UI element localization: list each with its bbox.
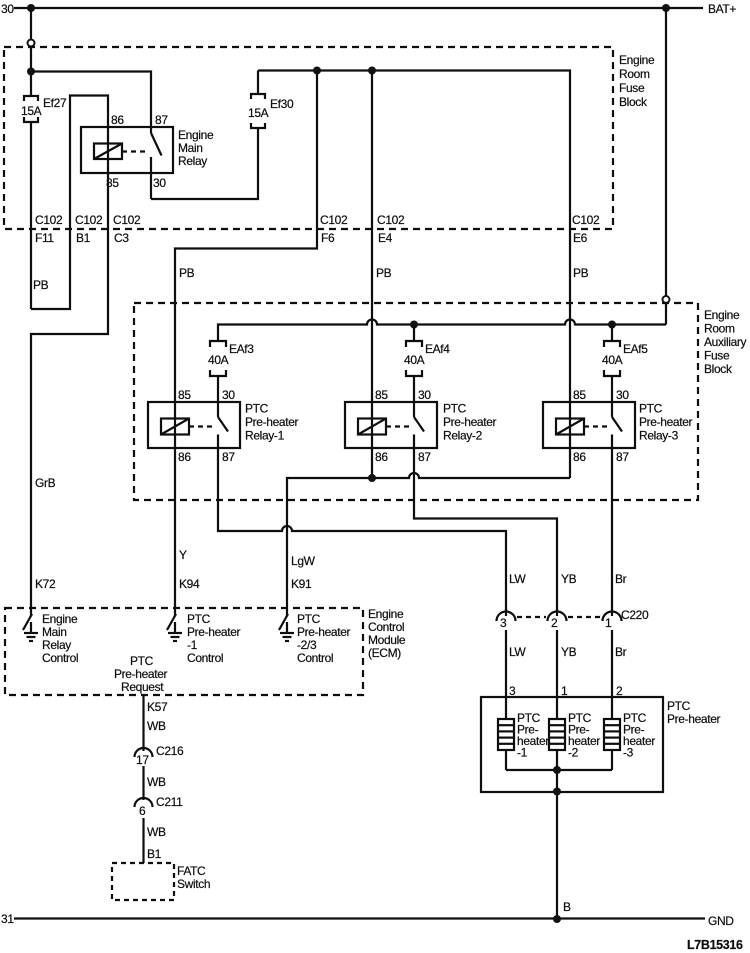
svg-text:87: 87 [616,450,629,464]
svg-text:Block: Block [704,362,733,376]
svg-text:B1: B1 [147,847,162,861]
relay-2 name [443,402,497,443]
wire engine main relay coil through 85 to GrB [31,127,108,608]
wire B to ground bus 31 [556,770,558,919]
wire relay 30 to Ef30 [151,128,258,199]
svg-text:Engine: Engine [704,308,740,322]
K91 function text [297,612,351,665]
svg-text:C102: C102 [377,213,405,227]
svg-text:C220: C220 [621,608,649,622]
fuse EAf5 [604,325,620,403]
wire bus to fuse block connector [30,8,32,40]
svg-text:Pre-heater: Pre-heater [187,625,241,639]
relay-2 coil [358,419,386,435]
PTC pre-heater request text [114,654,168,694]
svg-text:30: 30 [418,388,431,402]
connector C220 pin 1 [603,609,622,630]
heater element PTC pre-heater -1 [498,719,514,750]
svg-text:Ef30: Ef30 [270,97,294,111]
svg-text:-2: -2 [568,746,579,760]
svg-text:30: 30 [153,176,166,190]
svg-text:-2/3: -2/3 [297,638,317,652]
svg-text:Control: Control [187,651,223,665]
svg-text:WB: WB [147,775,166,789]
svg-text:85: 85 [573,388,586,402]
wire F11 to B1 loop through C102 [31,96,108,310]
connector C102 pin E6 labels [572,213,600,245]
svg-text:85: 85 [375,388,388,402]
K72 function text [42,612,78,665]
svg-text:FATC: FATC [177,864,206,878]
connector C211 pin 6 [135,798,153,818]
svg-text:Engine: Engine [619,53,655,67]
op relay U engine main relay box [81,127,173,173]
svg-text:-1: -1 [517,746,528,760]
svg-text:PTC: PTC [130,654,154,668]
wire relay-2 86 / relay-3 86 common to ECM K91 (LgW) [287,402,570,608]
junction on bus at BAT+ drop [662,4,670,12]
relay-1 name [245,402,299,443]
svg-text:E4: E4 [378,231,393,245]
junction B on ground bus [553,915,561,923]
ground K72 engine main relay control [23,608,38,641]
svg-text:C211: C211 [156,795,183,809]
relay-1 coil-switch link [189,425,213,427]
wire Ef30 output rail [258,71,570,403]
relay-3 switch blade [612,402,622,448]
svg-text:Pre-heater: Pre-heater [667,712,721,726]
svg-text:Relay-1: Relay-1 [245,429,285,443]
FATC switch name [177,864,210,891]
svg-text:Br: Br [615,645,627,659]
svg-text:C102: C102 [320,213,348,227]
wire relay-2 87 to C220 pin2 (YB) [414,448,557,611]
wire C220 pin3 to heater-1 (LW) [505,630,507,719]
svg-text:Relay: Relay [42,638,71,652]
engine main relay name [178,128,214,168]
relay K PTC pre-heater relay-1 box [148,402,240,448]
engine room auxiliary fuse block name [704,308,747,376]
wire relay-1 86 to ECM K94 (Y) [174,402,176,608]
connector circle into Engine Room Fuse Block [28,40,35,47]
wire C220 pin1 to heater-3 (Br) [611,630,613,719]
junction heater common [553,766,561,774]
svg-text:87: 87 [418,450,431,464]
svg-text:(ECM): (ECM) [368,646,401,660]
svg-text:15A: 15A [21,104,42,118]
svg-text:30: 30 [1,2,14,16]
svg-text:86: 86 [111,113,124,127]
svg-text:Control: Control [368,620,404,634]
junction at Ef27 top [27,68,35,76]
heater element PTC pre-heater -2 [549,719,565,750]
wire F6 to relay-1 85 [175,71,317,403]
svg-text:Switch: Switch [177,877,210,891]
fuse Ef30 [251,71,265,129]
engine room auxiliary fuse block border [134,303,698,500]
svg-text:17: 17 [136,753,149,767]
svg-text:EAf5: EAf5 [623,342,648,356]
svg-text:Fuse: Fuse [619,81,645,95]
svg-text:C102: C102 [113,213,141,227]
svg-text:30: 30 [616,388,629,402]
svg-text:B1: B1 [76,231,91,245]
svg-text:PTC: PTC [667,699,691,713]
svg-text:Main: Main [178,141,203,155]
svg-text:Module: Module [368,633,406,647]
wire to engine main relay pin 87 [31,72,151,127]
svg-text:Relay: Relay [178,154,207,168]
svg-text:L7B15316: L7B15316 [687,938,743,952]
svg-text:2: 2 [551,616,558,630]
svg-text:F11: F11 [35,231,54,245]
svg-text:WB: WB [147,825,166,839]
svg-text:K94: K94 [179,577,200,591]
junction on bus at Ef27 feed [27,4,35,12]
engine main relay coil [94,144,122,160]
svg-text:40A: 40A [404,353,425,367]
fuse Ef27 [24,96,38,309]
svg-text:Pre-heater: Pre-heater [245,415,299,429]
K94 function text [187,612,241,665]
wire BAT+ drop to aux fuse block [665,8,667,296]
engine room fuse block name [619,53,655,109]
svg-text:86: 86 [573,450,586,464]
engine room fuse block border [4,47,613,229]
svg-text:EAf4: EAf4 [425,342,450,356]
svg-text:Engine: Engine [368,607,404,621]
svg-text:LW: LW [509,645,526,659]
PTC pre-heater unit name [667,699,721,726]
svg-text:PTC: PTC [297,612,321,626]
svg-text:PB: PB [573,266,589,280]
wire circle to aux rail [665,303,667,325]
svg-text:PTC: PTC [187,612,211,626]
svg-text:6: 6 [139,804,146,818]
svg-text:BAT+: BAT+ [708,2,736,16]
svg-text:Ef27: Ef27 [43,96,67,110]
connector C216 pin 17 [135,748,153,767]
wire relay-1 87 to C220 pin3 (LW) with hop [218,448,506,611]
svg-text:85: 85 [178,388,191,402]
svg-text:-3: -3 [623,746,634,760]
svg-text:-1: -1 [187,638,198,652]
svg-text:PTC: PTC [245,402,269,416]
svg-text:PTC: PTC [639,402,663,416]
svg-text:LW: LW [509,572,526,586]
junction rail to F6 [313,67,321,75]
svg-text:Relay-2: Relay-2 [443,429,483,443]
ECM name [368,607,406,660]
svg-text:Engine: Engine [178,128,214,142]
relay-2 switch blade [414,402,424,448]
svg-text:Room: Room [619,67,650,81]
svg-text:87: 87 [155,113,168,127]
svg-text:C102: C102 [572,213,600,227]
connector C102 pin C3 labels [113,213,141,245]
svg-text:EAf3: EAf3 [229,342,254,356]
heater -1 text [517,711,549,760]
junction relay-2 86 on common wire [368,474,376,482]
connector C102 pin E4 labels [377,213,405,245]
svg-text:Y: Y [179,548,187,562]
svg-text:GrB: GrB [35,476,56,490]
junction rail to EAf4 [410,321,418,329]
svg-text:YB: YB [561,645,577,659]
wire C220 pin2 to heater-2 (YB) [556,630,558,719]
wire E4 to relay-2 85 [371,71,373,403]
junction rail to E4 [368,67,376,75]
ECM border [5,608,363,695]
svg-text:Br: Br [615,572,627,586]
fuse EAf4 [406,325,422,403]
svg-text:K72: K72 [35,577,56,591]
ground K91 PTC pre-heater -2/3 control [279,608,294,641]
heater element PTC pre-heater -3 [604,719,620,750]
svg-text:86: 86 [375,450,388,464]
connector C220 pin 2 [548,609,567,630]
ground K94 PTC pre-heater -1 control [167,608,182,641]
wire relay-3 87 to C220 pin1 (Br) [611,448,613,611]
svg-text:Room: Room [704,322,735,336]
svg-text:K91: K91 [291,577,312,591]
wire C211 to FATC switch [142,818,144,863]
connector C220 link dashes [517,616,601,618]
svg-text:C102: C102 [75,213,103,227]
junction at unit box edge [553,788,561,796]
relay-2 coil-switch link [386,425,410,427]
FATC switch box [112,863,174,900]
svg-text:15A: 15A [248,106,269,120]
svg-text:YB: YB [561,572,577,586]
svg-text:WB: WB [147,719,166,733]
svg-text:87: 87 [222,450,235,464]
svg-text:Pre-heater: Pre-heater [639,415,693,429]
fuse EAf3 [210,341,226,402]
svg-text:Auxiliary: Auxiliary [704,335,747,349]
svg-text:40A: 40A [208,353,229,367]
relay K PTC pre-heater relay-2 box [345,402,437,448]
svg-text:PB: PB [376,266,392,280]
svg-text:Control: Control [42,651,78,665]
svg-text:C216: C216 [156,744,184,758]
heater -2 text [568,711,600,760]
svg-text:Main: Main [42,625,67,639]
svg-text:Pre-heater: Pre-heater [443,415,497,429]
svg-text:Pre-heater: Pre-heater [297,625,351,639]
svg-text:Control: Control [297,651,333,665]
svg-text:PB: PB [33,278,49,292]
wire 31 ground bus [14,917,705,919]
svg-text:F6: F6 [321,231,335,245]
svg-text:1: 1 [605,616,612,630]
svg-text:PB: PB [179,266,195,280]
engine main relay coil-switch link [122,150,148,152]
connector circle into aux fuse block [663,296,670,303]
svg-text:86: 86 [178,450,191,464]
wire heater commons to ground bus [506,750,612,770]
relay-1 switch blade [218,402,228,448]
relay K PTC pre-heater relay-3 box [543,402,635,448]
svg-text:E6: E6 [573,231,588,245]
junction rail to EAf5 [608,321,616,329]
svg-text:C102: C102 [35,213,63,227]
svg-text:40A: 40A [602,353,623,367]
svg-text:Pre-heater: Pre-heater [114,667,168,681]
wire K57 to C216 [142,695,144,751]
svg-text:LgW: LgW [291,554,316,568]
svg-text:30: 30 [222,388,235,402]
svg-text:31: 31 [1,912,14,926]
engine main relay switch blade [151,127,162,199]
relay-3 coil-switch link [584,425,608,427]
wire 30 bus [14,7,703,9]
svg-text:PTC: PTC [443,402,467,416]
svg-text:GND: GND [708,914,734,928]
connector C220 pin 3 [497,609,516,630]
heater -3 text [623,711,655,760]
relay-3 name [639,402,693,443]
svg-text:Request: Request [121,680,164,694]
svg-text:3: 3 [500,616,507,630]
PTC pre-heater unit box [481,697,663,792]
svg-text:C3: C3 [114,231,129,245]
wire C216 to C211 [142,766,144,800]
svg-text:Engine: Engine [42,612,78,626]
svg-text:Fuse: Fuse [704,349,730,363]
wire connector to Ef27 [30,47,32,97]
svg-text:B: B [563,900,571,914]
connector C102 pin F11 labels [35,213,63,245]
relay-1 coil [161,419,189,435]
connector C102 pin F6 labels [320,213,348,245]
connector C102 pin B1 labels [75,213,103,245]
svg-text:Relay-3: Relay-3 [639,429,679,443]
svg-text:Block: Block [619,95,648,109]
relay-3 coil [556,419,584,435]
wire aux rail with hops over PB wires [218,320,666,342]
svg-text:K57: K57 [147,700,168,714]
